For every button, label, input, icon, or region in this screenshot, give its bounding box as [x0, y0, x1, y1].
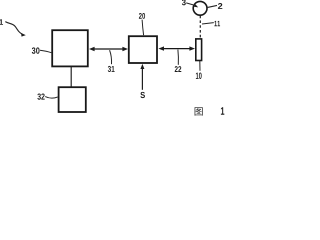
label 11: [214, 21, 220, 26]
leader line 30: [40, 50, 51, 52]
leader line 20: [142, 20, 144, 36]
caption glyph tu: [195, 107, 203, 115]
label 30: [32, 47, 40, 53]
lead arrow for label 1: [5, 22, 22, 35]
label 32: [37, 93, 44, 99]
circle 2: [193, 1, 207, 15]
leader line 11: [202, 23, 214, 24]
leader line 22: [177, 50, 180, 65]
block 10: [196, 39, 202, 61]
label 10: [196, 72, 202, 79]
block 30: [52, 30, 88, 66]
label 22: [175, 66, 182, 72]
label S: [140, 92, 145, 98]
double arrow 22 (between 20 and 10): [158, 46, 195, 50]
dashed line 11 (circle 2 to block 10): [199, 16, 201, 39]
pointer 3 (into circle): [186, 3, 198, 8]
caption numeral 1: [221, 107, 224, 114]
leader line 10: [199, 61, 201, 71]
label 2: [218, 3, 222, 9]
wire 30-32: [70, 67, 72, 87]
leader line 31: [110, 50, 112, 64]
label 31: [108, 66, 115, 72]
label 20: [139, 13, 145, 19]
block 20: [129, 36, 157, 63]
double arrow 31 (between 30 and 20): [89, 47, 128, 51]
leader line 32: [45, 97, 58, 99]
leader line 2: [208, 5, 217, 7]
label 1 (overall reference numeral): [0, 19, 3, 24]
block 32: [59, 87, 86, 112]
label 3: [182, 0, 186, 5]
signal arrow S into 20: [140, 64, 144, 90]
